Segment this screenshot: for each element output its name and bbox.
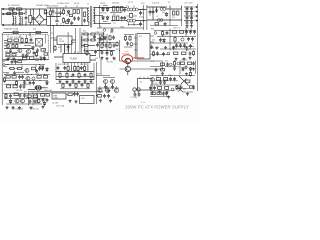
- svg-text:CN1: CN1: [81, 98, 85, 100]
- svg-text:TL494: TL494: [70, 57, 77, 60]
- svg-text:R45: R45: [110, 32, 113, 34]
- svg-text:12V 0.15A: 12V 0.15A: [56, 105, 65, 108]
- svg-text:CTRL: CTRL: [54, 97, 58, 99]
- svg-text:C82 D40: C82 D40: [32, 108, 39, 110]
- svg-text:+5V +12V: +5V +12V: [184, 2, 193, 4]
- svg-text:C20 C21: C20 C21: [152, 2, 159, 4]
- svg-text:L5: L5: [43, 87, 45, 89]
- svg-text:+: +: [54, 19, 55, 21]
- svg-text:T3: T3: [140, 82, 142, 84]
- svg-text:C36 R33: C36 R33: [80, 64, 87, 66]
- svg-text:R62: R62: [163, 35, 166, 37]
- svg-text:R82: R82: [6, 73, 9, 75]
- svg-text:D22: D22: [5, 51, 8, 53]
- svg-text:Q15: Q15: [156, 75, 159, 77]
- svg-text:R92: R92: [24, 92, 27, 94]
- svg-text:D10: D10: [162, 12, 165, 14]
- svg-text:2SC945: 2SC945: [122, 53, 131, 55]
- svg-text:Q14: Q14: [155, 47, 158, 49]
- svg-text:GND BUS: GND BUS: [44, 90, 53, 92]
- svg-text:D28 C64: D28 C64: [181, 60, 187, 62]
- svg-text:Q9: Q9: [114, 59, 116, 61]
- svg-text:D35: D35: [26, 55, 29, 57]
- svg-text:C52: C52: [177, 42, 180, 44]
- svg-text:Q11: Q11: [4, 97, 7, 99]
- svg-text:C50 C51: C50 C51: [173, 28, 180, 30]
- svg-text:R19: R19: [33, 29, 36, 31]
- svg-text:D8 D9: D8 D9: [100, 3, 105, 5]
- svg-text:C16: C16: [95, 58, 98, 60]
- svg-text:B+: B+: [100, 26, 102, 28]
- svg-text:R70: R70: [151, 61, 154, 63]
- svg-text:D83-004: D83-004: [112, 2, 119, 4]
- svg-text:Q2: Q2: [76, 6, 78, 8]
- svg-text:D14 C40: D14 C40: [97, 32, 104, 34]
- svg-text:C67 R85: C67 R85: [16, 90, 22, 92]
- svg-text:C14: C14: [66, 50, 69, 52]
- svg-text:C5 330u 200V: C5 330u 200V: [57, 3, 70, 5]
- svg-text:R52: R52: [97, 74, 100, 76]
- svg-text:J2 CN3: J2 CN3: [52, 103, 58, 105]
- svg-text:L3: L3: [168, 2, 170, 4]
- svg-text:C55: C55: [191, 43, 194, 45]
- svg-text:C13: C13: [139, 17, 142, 19]
- svg-text:L4: L4: [156, 16, 158, 18]
- svg-text:D5: D5: [66, 15, 68, 17]
- svg-text:+: +: [54, 11, 55, 13]
- svg-text:D31: D31: [183, 89, 186, 91]
- svg-text:STANDBY 5VSB: STANDBY 5VSB: [4, 28, 19, 31]
- svg-text:T2: T2: [126, 5, 128, 7]
- svg-text:TL431: TL431: [59, 41, 64, 43]
- svg-text:R90 C80 Q12: R90 C80 Q12: [12, 109, 23, 111]
- svg-text:IC5: IC5: [30, 37, 33, 39]
- svg-text:C37: C37: [92, 77, 95, 79]
- svg-text:C61: C61: [165, 61, 168, 63]
- svg-text:L1 T2: L1 T2: [128, 2, 133, 4]
- svg-text:C7: C7: [60, 23, 62, 25]
- svg-text:PS-ON: PS-ON: [107, 62, 113, 64]
- svg-text:D25: D25: [152, 39, 155, 41]
- svg-text:R2 Q1: R2 Q1: [74, 3, 79, 5]
- svg-text:T1: T1: [87, 4, 89, 6]
- svg-text:Q7: Q7: [113, 97, 115, 99]
- svg-text:check: check: [124, 51, 129, 53]
- svg-text:R30 R31 C35: R30 R31 C35: [58, 64, 68, 66]
- svg-text:F1 T5A 250V: F1 T5A 250V: [8, 4, 20, 7]
- svg-text:R11: R11: [113, 14, 116, 16]
- svg-text:IC2: IC2: [59, 38, 62, 40]
- svg-text:R8: R8: [70, 23, 72, 25]
- svg-text:SBL2040: SBL2040: [100, 13, 107, 15]
- svg-text:C9: C9: [51, 33, 53, 35]
- svg-text:R15: R15: [172, 17, 175, 19]
- svg-text:IC3: IC3: [139, 36, 142, 38]
- svg-text:R60: R60: [151, 28, 154, 30]
- svg-text:R47: R47: [116, 49, 119, 51]
- svg-text:200W PC ATX POWER SUPPLY: 200W PC ATX POWER SUPPLY: [125, 105, 189, 110]
- svg-text:C11: C11: [113, 22, 116, 24]
- svg-text:C12: C12: [141, 3, 144, 5]
- svg-text:C62: C62: [177, 66, 180, 68]
- svg-text:C65: C65: [36, 73, 39, 75]
- svg-text:R40: R40: [83, 31, 86, 33]
- svg-text:D1-D4 1N4007: D1-D4 1N4007: [47, 6, 58, 8]
- svg-text:C91 R95: C91 R95: [131, 97, 138, 99]
- svg-text:R25: R25: [58, 47, 61, 49]
- svg-text:GND1: GND1: [120, 26, 125, 28]
